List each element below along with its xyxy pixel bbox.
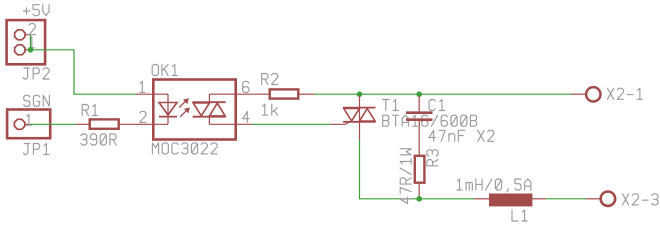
pin number 1 of OK1 (140, 81, 145, 92)
connector JP2 name (23, 68, 49, 79)
terminal X2-3 label (623, 194, 658, 205)
triac T1 value BTA16/600B (383, 115, 477, 126)
resistor R3 name (rotated) (427, 150, 438, 166)
inductor L1 value 1mH/0,5A (457, 179, 531, 192)
terminal X2-1 label (608, 88, 643, 99)
LED light arrows (179, 99, 189, 117)
terminal X2-3 (586, 192, 615, 206)
pin number 6 of OK1 (243, 81, 249, 92)
capacitor C1 (406, 96, 433, 155)
connector JP2 (7, 20, 46, 64)
node SGN label (24, 95, 50, 106)
opto-triac OK1 box (153, 80, 235, 140)
inductor L1 name (512, 210, 527, 221)
pin number 2 of OK1 (140, 111, 146, 122)
resistor R3 value 47R/1W (rotated) (400, 149, 411, 204)
resistor R2 name (262, 74, 278, 85)
inductor L1 (474, 194, 546, 207)
pin 6 of OK1 (209, 93, 268, 95)
wire OK1 pin4 to T1 gate (253, 123, 331, 125)
wire R2 to X2-1 (315, 93, 572, 95)
pin 4 of OK1 (209, 123, 252, 125)
opto-triac OK1 value MOC3022 (152, 143, 217, 154)
resistor R2 (270, 89, 315, 98)
pin number 1 of JP1 (26, 114, 31, 125)
resistor R1 value 390R (81, 134, 116, 145)
resistor R3 (415, 156, 425, 199)
wire L1 to X2-3 (546, 198, 586, 200)
junction at JP2 pin 1 (28, 47, 34, 53)
photo-triac inside OK1 (193, 94, 226, 124)
triac T1 (330, 96, 376, 141)
connector JP1 name (23, 144, 49, 155)
resistor R1 (76, 119, 168, 128)
capacitor C1 value 47nF X2 (429, 130, 494, 141)
pin number 2 of JP2 (29, 24, 35, 35)
connector JP1 (7, 110, 50, 139)
opto-triac OK1 name (152, 65, 177, 76)
pin 1 of OK1 (136, 93, 168, 95)
LED inside OK1 (159, 94, 177, 124)
node +5V label (23, 5, 49, 16)
pin number 4 of OK1 (243, 111, 249, 122)
wire +5V net (31, 35, 137, 94)
wire SGN net (30, 123, 76, 125)
junction above T1 (357, 91, 363, 97)
junction above C1 (416, 91, 422, 97)
wire T1 MT1 down to X2-3 net (360, 140, 475, 199)
capacitor C1 name (429, 100, 444, 111)
triac T1 name (383, 100, 399, 111)
pin number 1 of JP2 (29, 37, 34, 48)
resistor R2 value 1k (262, 104, 277, 115)
resistor R1 name (82, 105, 97, 116)
junction below R3 (416, 196, 422, 202)
terminal X2-1 (571, 87, 601, 101)
